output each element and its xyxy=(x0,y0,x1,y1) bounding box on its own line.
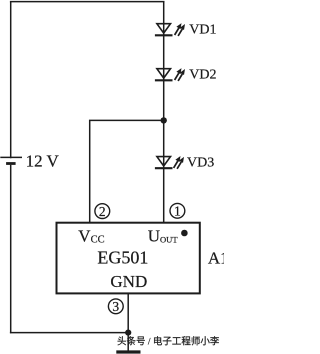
svg-text:1: 1 xyxy=(174,204,181,219)
node A junction dot xyxy=(161,117,167,123)
LED VD1 xyxy=(155,23,185,36)
svg-text:VD1: VD1 xyxy=(189,23,216,38)
svg-text:VD3: VD3 xyxy=(187,155,214,170)
svg-text:VD2: VD2 xyxy=(189,68,216,83)
node: bottom junction dot xyxy=(125,330,131,336)
svg-text:A1: A1 xyxy=(208,249,224,268)
wire: LED string vertical down to pin 1 xyxy=(163,2,165,223)
IC A1 EG501 box xyxy=(57,223,200,294)
LED VD3 xyxy=(155,156,184,169)
pin 3 marker xyxy=(108,299,123,314)
pin 2 marker xyxy=(95,204,110,219)
ground xyxy=(116,350,140,353)
output marker dot xyxy=(181,230,188,237)
svg-text:2: 2 xyxy=(99,204,106,219)
wire: top rail xyxy=(10,1,165,3)
svg-text:3: 3 xyxy=(112,299,119,314)
LED VD2 xyxy=(155,68,185,81)
wire: branch from node A to pin 2 xyxy=(90,120,164,222)
svg-text:头条号 / 电子工程师小李: 头条号 / 电子工程师小李 xyxy=(117,336,220,348)
battery GB 12V xyxy=(0,157,22,163)
wire: bottom rail xyxy=(10,332,128,334)
wire: GND pin 3 down to ground xyxy=(127,293,129,351)
wire: battery negative down xyxy=(10,165,12,333)
svg-text:GND: GND xyxy=(110,272,147,291)
pin 1 marker xyxy=(170,203,185,218)
svg-text:12 V: 12 V xyxy=(26,152,60,171)
wire: battery positive up to top rail xyxy=(10,2,12,159)
svg-text:EG501: EG501 xyxy=(97,248,148,268)
